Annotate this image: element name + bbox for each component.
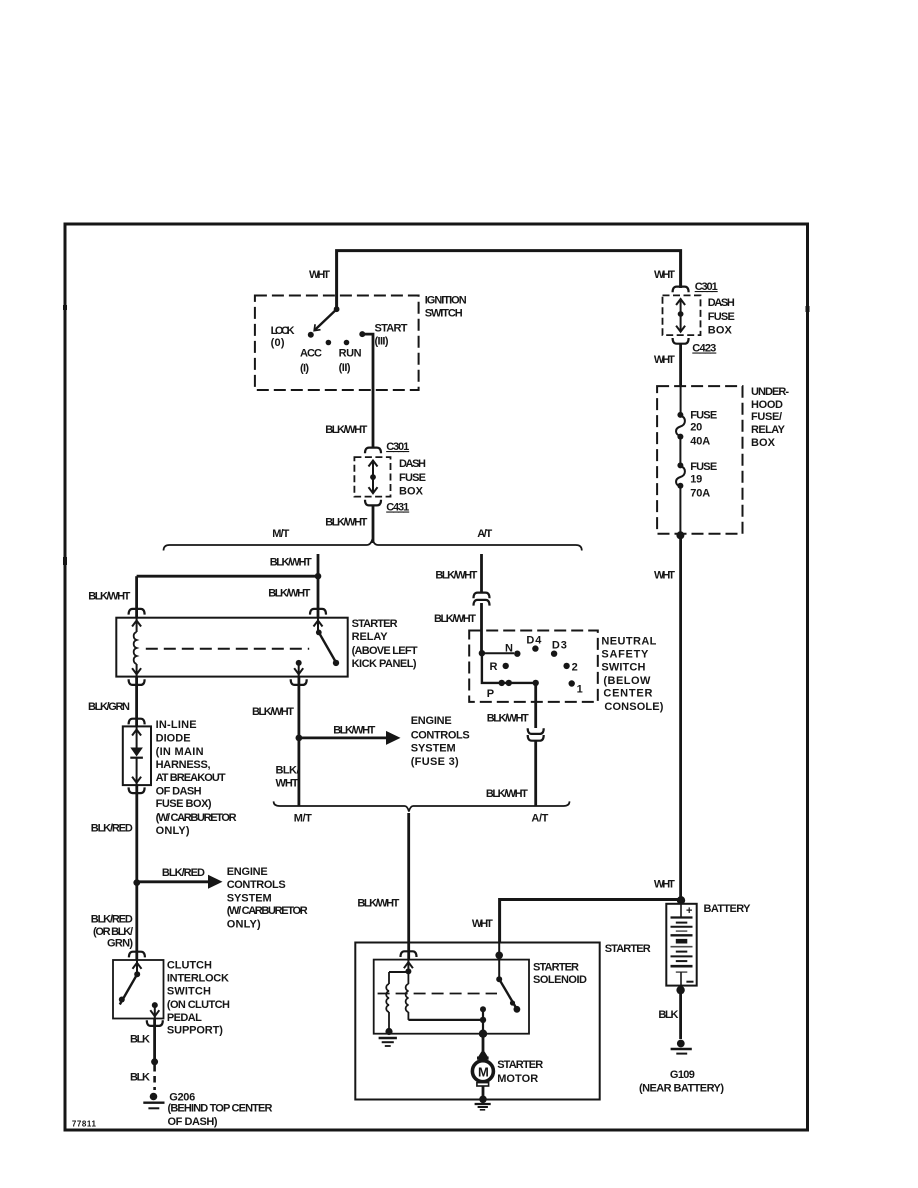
clutch switch fixed contact	[152, 1002, 158, 1008]
solenoid switch pivot	[496, 976, 502, 982]
relay switch lead-in	[317, 618, 319, 633]
solenoid pull-in coil (left)	[388, 972, 390, 984]
svg-text:M/T: M/T	[294, 813, 312, 825]
svg-text:NEUTRAL: NEUTRAL	[601, 635, 656, 647]
svg-text:STARTER: STARTER	[352, 618, 398, 630]
relay entry connector (coil side)	[129, 609, 145, 615]
battery top terminal	[680, 904, 682, 918]
svg-text:BLK: BLK	[130, 1034, 150, 1046]
wire arrow to engine controls system (carb)	[137, 880, 209, 883]
svg-text:KICK PANEL): KICK PANEL)	[352, 658, 417, 670]
NSS wire to N contact	[482, 652, 514, 654]
svg-text:(IN MAIN: (IN MAIN	[156, 746, 204, 758]
svg-text:BLK/WHT: BLK/WHT	[434, 613, 476, 625]
battery -	[686, 981, 693, 983]
diode D (triangle and bar)	[130, 748, 143, 757]
contact 1	[569, 680, 575, 686]
svg-text:M: M	[478, 1065, 489, 1080]
svg-text:(II): (II)	[339, 362, 351, 374]
ground G206	[150, 1093, 158, 1101]
contact ACC (I)	[326, 340, 332, 346]
starter solenoid box	[374, 960, 529, 1034]
svg-text:BLK/WHT: BLK/WHT	[333, 725, 375, 737]
fuse 20 40A	[677, 412, 683, 418]
wire below C431	[372, 506, 375, 544]
neutral safety switch box (dashed)	[469, 631, 598, 702]
wire down to lower brace	[534, 740, 537, 806]
ignition switch box (dashed)	[255, 296, 419, 391]
svg-text:OF DASH): OF DASH)	[168, 1116, 218, 1128]
solenoid coil ground	[385, 1028, 392, 1035]
relay coil	[134, 632, 137, 664]
contact P nodes	[499, 680, 505, 686]
junction node to engine controls (carb)	[133, 879, 140, 886]
svg-text:(NEAR BATTERY): (NEAR BATTERY)	[639, 1083, 724, 1095]
wire WHT battery to starter	[500, 900, 681, 943]
wire: right drop to starter relay switch	[317, 576, 320, 618]
svg-text:C423: C423	[692, 343, 716, 355]
svg-text:CLUTCH: CLUTCH	[167, 960, 212, 972]
svg-text:A/T: A/T	[477, 528, 492, 540]
svg-text:G109: G109	[670, 1069, 695, 1081]
wire from lower brace to starter	[407, 813, 410, 960]
svg-text:(FUSE 3): (FUSE 3)	[411, 756, 459, 768]
svg-text:BLK/WHT: BLK/WHT	[486, 788, 528, 800]
svg-text:FUSE: FUSE	[399, 472, 426, 484]
battery junction node	[677, 896, 685, 904]
diode lead-out with arrow	[136, 758, 138, 785]
svg-text:BLK/WHT: BLK/WHT	[325, 424, 367, 436]
relay exit connector (switch side)	[291, 679, 307, 685]
svg-text:WHT: WHT	[654, 269, 675, 281]
solenoid internal dashed link	[378, 993, 497, 995]
contact 2	[563, 663, 569, 669]
starter box	[355, 943, 599, 1100]
svg-text:FUSE: FUSE	[690, 410, 717, 422]
svg-text:P: P	[487, 688, 494, 700]
svg-text:SUPPORT): SUPPORT)	[167, 1024, 223, 1036]
ignition switch lever toward LOCK	[315, 309, 337, 330]
svg-text:BLK: BLK	[130, 1072, 150, 1084]
svg-text:ENGINE: ENGINE	[227, 866, 268, 878]
svg-text:STARTER: STARTER	[605, 943, 651, 955]
starter motor M	[478, 1049, 487, 1057]
NSS wire down and across P	[482, 653, 536, 683]
svg-text:19: 19	[690, 474, 702, 486]
svg-text:BLK/WHT: BLK/WHT	[357, 897, 399, 909]
solenoid pivot node	[405, 968, 411, 974]
svg-text:D4: D4	[526, 635, 542, 647]
wire arrow to engine controls system (fuse 3)	[299, 737, 387, 740]
ground G109	[677, 1040, 685, 1048]
svg-text:(ABOVE LEFT: (ABOVE LEFT	[352, 645, 418, 657]
svg-text:OF DASH: OF DASH	[156, 786, 202, 798]
svg-text:SYSTEM: SYSTEM	[227, 892, 272, 904]
wire to starter motor	[482, 1034, 485, 1051]
svg-text:GRN): GRN)	[107, 938, 133, 950]
svg-text:(I): (I)	[300, 363, 309, 375]
solenoid hold-in coil (right)	[407, 971, 409, 984]
fuse 19 70A	[677, 462, 683, 468]
clutch interlock switch box	[113, 960, 164, 1019]
junction node at underhood box exit	[676, 531, 684, 539]
junction node	[151, 1058, 158, 1065]
svg-text:LOCK: LOCK	[271, 325, 295, 337]
svg-text:(W/ CARBURETOR: (W/ CARBURETOR	[227, 905, 308, 917]
brace splitting M/T and A/T	[164, 539, 582, 551]
svg-text:SOLENOID: SOLENOID	[533, 974, 587, 986]
relay coil lead-out with arrow	[136, 664, 138, 677]
battery plates	[671, 916, 693, 918]
svg-text:(0): (0)	[271, 337, 285, 349]
battery box	[666, 904, 696, 986]
svg-text:1: 1	[577, 684, 583, 696]
svg-text:FUSE: FUSE	[690, 461, 717, 473]
wire to bottom of underhood box	[679, 486, 681, 534]
relay switch fixed contact	[296, 660, 302, 666]
svg-text:BATTERY: BATTERY	[704, 903, 752, 915]
svg-text:R: R	[490, 661, 498, 673]
solenoid coil out to motor node	[408, 1019, 483, 1021]
svg-text:SWITCH: SWITCH	[601, 661, 645, 673]
contact RUN (II)	[344, 340, 350, 346]
wire: left drop to starter relay coil	[135, 576, 138, 618]
in-line diode box	[123, 726, 151, 785]
contact LOCK (0)	[308, 332, 314, 338]
wire: top WHT feed from ignition to battery column	[337, 251, 681, 310]
svg-text:(OR BLK/: (OR BLK/	[93, 926, 133, 938]
wire: M/T drop from brace	[317, 554, 320, 576]
svg-text:BLK/WHT: BLK/WHT	[325, 517, 367, 529]
wire: A/T drop from brace	[480, 554, 483, 592]
contact D4	[532, 645, 538, 651]
svg-text:SWITCH: SWITCH	[425, 308, 463, 320]
svg-text:BOX: BOX	[399, 486, 424, 498]
svg-text:AT BREAKOUT: AT BREAKOUT	[156, 772, 226, 784]
contact START (III)	[359, 331, 365, 337]
svg-text:BLK/RED: BLK/RED	[91, 914, 133, 926]
svg-text:RUN: RUN	[339, 348, 362, 360]
svg-text:ONLY): ONLY)	[227, 918, 261, 930]
svg-text:BLK/WHT: BLK/WHT	[88, 591, 130, 603]
wire BLK/RED down left column	[135, 785, 138, 960]
junction node M/T	[315, 573, 322, 580]
svg-text:RELAY: RELAY	[352, 631, 389, 643]
solenoid switch feed node	[495, 952, 503, 960]
wire WHT down right side to battery	[679, 535, 682, 899]
svg-text:(BELOW: (BELOW	[603, 675, 651, 687]
svg-text:IN-LINE: IN-LINE	[156, 719, 197, 731]
dash fuse box (left, dashed)	[354, 457, 390, 497]
svg-text:INTERLOCK: INTERLOCK	[167, 973, 229, 985]
connector C423	[673, 338, 689, 344]
svg-text:M/T: M/T	[272, 528, 289, 540]
contact D3	[551, 651, 557, 657]
starter motor ground	[482, 1086, 485, 1097]
svg-text:WHT: WHT	[654, 570, 675, 582]
wire from relay switch exit down	[297, 677, 300, 806]
NSS input node	[479, 650, 485, 656]
svg-text:PEDAL: PEDAL	[167, 1012, 202, 1024]
svg-text:MOTOR: MOTOR	[497, 1073, 538, 1085]
relay exit connector (coil side)	[129, 679, 145, 685]
svg-text:70A: 70A	[690, 487, 710, 499]
dashed wire BLK to G206	[153, 1065, 156, 1090]
connector C301 (right)	[673, 287, 689, 293]
in-line diode entry connector	[129, 719, 145, 725]
NSS output node	[533, 680, 539, 686]
svg-text:STARTER: STARTER	[533, 962, 579, 974]
junction node to engine controls	[296, 735, 303, 742]
svg-text:+: +	[686, 905, 692, 917]
svg-text:ACC: ACC	[300, 347, 322, 359]
svg-text:(W/ CARBURETOR: (W/ CARBURETOR	[156, 812, 237, 824]
contact N	[514, 651, 520, 657]
svg-text:(III): (III)	[375, 336, 389, 348]
svg-text:BLK/WHT: BLK/WHT	[270, 556, 312, 568]
clutch switch lead-in with arrow	[136, 960, 138, 974]
svg-text:DASH: DASH	[708, 297, 735, 309]
svg-text:N: N	[505, 643, 513, 655]
svg-text:SWITCH: SWITCH	[167, 986, 211, 998]
clutch switch lever	[120, 974, 137, 1004]
svg-text:RELAY: RELAY	[751, 424, 786, 436]
svg-text:ENGINE: ENGINE	[411, 715, 452, 727]
svg-text:CONTROLS: CONTROLS	[411, 730, 470, 742]
svg-text:UNDER-: UNDER-	[751, 386, 789, 398]
wire BLK below clutch switch	[153, 1019, 156, 1059]
svg-text:FUSE: FUSE	[708, 311, 735, 323]
svg-text:CONTROLS: CONTROLS	[227, 879, 286, 891]
svg-text:CONSOLE): CONSOLE)	[604, 701, 663, 713]
wire into neutral safety switch	[480, 603, 483, 653]
svg-text:BLK: BLK	[658, 1009, 678, 1021]
clutch interlock exit connector	[147, 1020, 163, 1026]
svg-text:BLK/WHT: BLK/WHT	[435, 570, 477, 582]
svg-text:WHT: WHT	[654, 878, 675, 890]
svg-text:START: START	[375, 322, 408, 334]
starter relay box	[116, 618, 347, 677]
svg-text:DASH: DASH	[399, 458, 426, 470]
battery negative node	[676, 986, 684, 994]
relay entry connector (switch side)	[310, 609, 326, 615]
relay switch pivot	[316, 630, 322, 636]
wire between fuses	[679, 437, 681, 466]
svg-text:STARTER: STARTER	[497, 1059, 543, 1071]
solenoid switch lever	[499, 979, 516, 1008]
svg-text:(BEHIND TOP CENTER: (BEHIND TOP CENTER	[168, 1103, 273, 1115]
connector C301 (left)	[365, 448, 381, 454]
dash fuse box (right, dashed)	[663, 295, 701, 335]
lower brace merging M/T and A/T	[274, 801, 570, 811]
battery bottom terminal	[680, 972, 682, 986]
svg-text:ONLY): ONLY)	[156, 825, 190, 837]
underhood fuse/relay box (dashed)	[657, 386, 742, 534]
svg-text:WHT: WHT	[309, 269, 330, 281]
svg-text:BLK/RED: BLK/RED	[91, 823, 133, 835]
svg-text:BLK/RED: BLK/RED	[162, 867, 205, 879]
clutch switch pivot	[134, 971, 140, 977]
svg-text:BLK/: BLK/	[276, 765, 300, 777]
wire BLK to G109	[679, 990, 682, 1039]
wire WHT between C423 and underhood box	[679, 344, 682, 386]
svg-text:HARNESS,: HARNESS,	[156, 759, 211, 771]
ignition switch pivot node	[334, 306, 340, 312]
svg-text:WHT: WHT	[654, 354, 675, 366]
connector C431	[365, 500, 381, 506]
svg-text:C301: C301	[386, 441, 409, 453]
svg-text:BOX: BOX	[708, 325, 733, 337]
relay internal dashed link	[146, 648, 309, 650]
svg-text:BOX: BOX	[751, 437, 776, 449]
relay switch lever	[319, 632, 336, 661]
svg-text:BLK/WHT: BLK/WHT	[487, 712, 529, 724]
svg-text:D3: D3	[552, 640, 567, 652]
svg-text:WHT: WHT	[472, 918, 493, 930]
svg-text:BLK/WHT: BLK/WHT	[268, 587, 310, 599]
svg-text:BLK/GRN: BLK/GRN	[88, 701, 130, 713]
border frame	[65, 224, 808, 1130]
wire: horizontal to left column	[137, 575, 318, 578]
wire out of NSS	[534, 683, 537, 728]
svg-text:IGNITION: IGNITION	[425, 295, 467, 307]
svg-text:HOOD: HOOD	[751, 399, 783, 411]
wire inside underhood box (top)	[680, 386, 682, 415]
svg-text:20: 20	[690, 422, 702, 434]
svg-text:FUSE BOX): FUSE BOX)	[156, 798, 212, 810]
contact R	[503, 663, 509, 669]
relay coil lead-in with arrow	[136, 618, 138, 632]
svg-text:A/T: A/T	[531, 813, 548, 825]
in-line connector (A/T)	[474, 593, 490, 599]
diode lead-in with arrow	[136, 726, 138, 748]
svg-text:BLK/WHT: BLK/WHT	[252, 706, 294, 718]
in-line connector below NSS	[528, 728, 544, 734]
svg-text:C431: C431	[386, 502, 409, 514]
in-line diode exit connector	[129, 787, 145, 793]
svg-text:C301: C301	[695, 281, 718, 293]
wire: START output BLK/WHT down to dash fuse box	[362, 334, 373, 446]
svg-text:DIODE: DIODE	[156, 733, 191, 745]
svg-text:CENTER: CENTER	[603, 688, 652, 700]
wire BLK/GRN relay to diode	[135, 677, 138, 727]
svg-text:77811: 77811	[72, 1120, 97, 1129]
svg-text:(ON CLUTCH: (ON CLUTCH	[167, 999, 230, 1011]
svg-text:SYSTEM: SYSTEM	[411, 743, 456, 755]
solenoid switch fixed contact	[480, 1006, 486, 1012]
svg-text:FUSE/: FUSE/	[751, 411, 782, 423]
solenoid coil lead-in with arrow	[407, 960, 409, 972]
node at solenoid box bottom	[479, 1030, 487, 1038]
svg-text:WHT: WHT	[276, 778, 299, 790]
svg-text:40A: 40A	[690, 436, 710, 448]
clutch interlock entry connector	[129, 952, 145, 958]
svg-text:2: 2	[572, 662, 578, 674]
svg-text:SAFETY: SAFETY	[601, 648, 649, 660]
scan tick marks on border	[63, 305, 67, 310]
solenoid entry connector	[401, 951, 417, 957]
solenoid coil bridge	[389, 971, 408, 973]
